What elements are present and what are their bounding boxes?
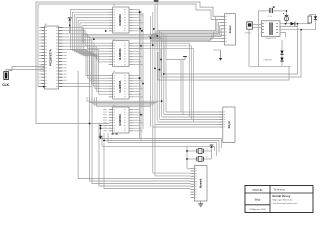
connector J5 [194, 166, 207, 202]
wire MCLR from frame [38, 86, 45, 88]
wire feed J5 p3 [153, 125, 191, 173]
wire bus to J4 [166, 111, 219, 113]
svg-text:emrahozsoy@yahoo.com: emrahozsoy@yahoo.com [273, 202, 298, 205]
wire bottom rail y=123.5 [36, 123, 109, 125]
power symbol VDD near U1 [69, 18, 71, 33]
wire vertical x181 [180, 60, 182, 113]
junction [163, 73, 165, 75]
junction C1 right [286, 10, 288, 12]
wire bus U1 to U3 [63, 28, 109, 44]
wire J1 to TR1 b [252, 27, 261, 29]
wire bus U2-U4 feeds [71, 10, 109, 76]
wire U1 pin19 [63, 82, 90, 84]
wire power left loop [249, 29, 291, 66]
resistor R1 [308, 16, 312, 23]
wire TR1 out2 [280, 26, 298, 28]
wire bus mid gap [87, 97, 159, 101]
wire D1 to R1 [295, 23, 310, 25]
wire U3 right loops [133, 43, 190, 117]
ground arrow right [220, 50, 222, 58]
wire vertical x99 [99, 124, 190, 187]
microcontroller U1 PIC16F877A [45, 26, 59, 89]
wire power loop top right [273, 11, 287, 24]
ground below J5 [200, 201, 202, 204]
svg-text:Bilgi: Bilgi [255, 197, 261, 201]
svg-text:4.7uF: 4.7uF [268, 16, 274, 18]
svg-text:Komut: Komut [229, 25, 232, 33]
junction [142, 83, 144, 85]
wire rail y80 [158, 52, 289, 80]
wire bus to J3 [157, 16, 220, 30]
wire X1 second lead [9, 66, 45, 71]
wire nested run 3 [108, 133, 217, 156]
ground below U5 [99, 135, 103, 137]
diode D1 [291, 22, 295, 26]
wire vertical x89.5 [90, 45, 191, 181]
wire U5 low pins to ground [100, 126, 102, 137]
junction led [300, 29, 302, 31]
wire nested run 1 [100, 133, 222, 148]
junction Q1 left [186, 150, 188, 152]
junction U5 gnd a [100, 125, 102, 127]
title block frame [245, 186, 313, 213]
svg-text:Bilgisayar Mühendisi: Bilgisayar Mühendisi [273, 199, 294, 202]
junction [105, 30, 107, 32]
led D3 [314, 16, 317, 19]
svg-text:Q2: Q2 [206, 156, 208, 158]
wire nested run 2 [104, 133, 219, 152]
wire vertical x104b [104, 143, 190, 189]
wire U2-U5 outputs [133, 9, 140, 11]
svg-text:24 Ağustos 2005: 24 Ağustos 2005 [249, 208, 266, 211]
svg-text:TRAN-2P2S: TRAN-2P2S [265, 37, 276, 40]
driver IC U4 [113, 73, 129, 99]
svg-text:Tel Antena: Tel Antena [274, 189, 286, 192]
wire power loop top [259, 11, 270, 22]
junction [150, 37, 152, 39]
U5 bottom pin marks [112, 133, 114, 134]
driver IC U3 [113, 41, 129, 67]
junction [93, 38, 95, 40]
wire nested run 4 [102, 137, 215, 151]
wire bus gap AB [83, 33, 157, 35]
wire feed J5 p4 [155, 123, 190, 176]
junction Q2 left [186, 158, 188, 160]
wire bottom run y=178.5 [78, 178, 190, 180]
wire U1 pin20 [63, 86, 93, 88]
wire R1 top [309, 22, 311, 25]
wire X1 to U1 OSC1 [6, 70, 45, 72]
driver IC U5 [113, 107, 129, 133]
svg-text:ULN2803A: ULN2803A [119, 14, 122, 26]
junction [156, 35, 158, 37]
svg-text:220VAC: 220VAC [245, 31, 252, 34]
wire TR1 out3 [280, 29, 301, 31]
svg-text:PROJE: PROJE [252, 188, 262, 192]
connector J3 [225, 14, 236, 45]
wire led down [301, 23, 316, 30]
crystal X1 [4, 72, 9, 80]
junction [140, 45, 142, 47]
power flag VDD top rail [155, 1, 157, 2]
wire R1 up [310, 15, 316, 17]
junction C2 [285, 23, 287, 25]
junction D1 out [297, 23, 299, 25]
junction [160, 59, 162, 61]
wire vertical bus C [142, 13, 144, 129]
junction [139, 28, 141, 30]
junction [139, 77, 141, 79]
junction near U1 VDD [69, 24, 71, 26]
power flag Q right [210, 144, 214, 147]
wire vertical x92 [92, 47, 190, 184]
svg-text:D1N4148: D1N4148 [264, 60, 272, 62]
wire corridor verticals [150, 16, 152, 127]
diode D2 [281, 40, 283, 66]
capacitor C1 [269, 8, 271, 13]
power flag mid rail [184, 57, 186, 60]
connector J1 [247, 22, 253, 29]
wire Q common left [187, 146, 190, 168]
net labels U1 lower pins [63, 51, 66, 54]
wire TR1 out1 [280, 23, 291, 25]
svg-text:Q1: Q1 [206, 148, 208, 150]
svg-text:ULN2803A: ULN2803A [119, 114, 122, 126]
junction [139, 11, 141, 13]
junction [159, 69, 161, 71]
junction [152, 44, 154, 46]
wire rail y74 [164, 24, 298, 74]
wire vertical bus A [139, 10, 141, 139]
svg-text:Emrah Özsoy: Emrah Özsoy [273, 193, 291, 198]
junction [153, 28, 155, 30]
wire long vertical x78 [77, 71, 79, 179]
junction [154, 68, 156, 70]
svg-text:ULN2803A: ULN2803A [119, 80, 122, 92]
svg-text:Sinyal: Sinyal [228, 121, 231, 128]
junction [103, 140, 105, 142]
wire TR1 out4 [280, 33, 286, 38]
wire vertical x183 [182, 60, 184, 115]
svg-text:Numerik: Numerik [200, 178, 203, 188]
transformer TR1 [262, 21, 281, 37]
svg-text:PIC16F877A: PIC16F877A [49, 48, 53, 66]
svg-text:CLK: CLK [2, 83, 9, 87]
junction U5 gnd b [100, 127, 102, 129]
connector J4 [223, 107, 235, 143]
wire power left upper [258, 22, 260, 66]
junction [140, 114, 142, 116]
capacitor C2 [285, 17, 289, 21]
junction [161, 100, 163, 102]
wire VCC rail outer loop [36, 2, 221, 124]
net labels U5 inputs [103, 108, 107, 111]
wire vertical bus B [140, 11, 142, 141]
resonator Q1 [187, 150, 197, 152]
wire J1 to TR1 a [252, 24, 261, 26]
wire VCC rail inner loop [38, 4, 221, 87]
junction [89, 123, 91, 125]
driver IC U2 [113, 7, 129, 33]
wire stub flag [166, 59, 185, 61]
svg-text:ULN2803A: ULN2803A [119, 48, 122, 60]
resonator Q2 [187, 158, 197, 160]
junction [141, 30, 143, 32]
wire rail y77 [161, 30, 301, 77]
wire Q common right [211, 147, 213, 160]
